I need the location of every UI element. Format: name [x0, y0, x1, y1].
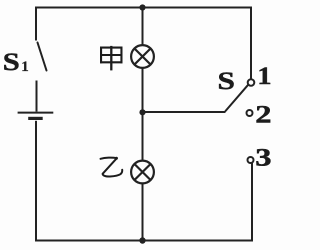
lamp L2 (yi) [131, 161, 154, 184]
svg-text:1: 1 [21, 59, 29, 75]
wire right lower [251, 163, 253, 242]
contact 3 [248, 157, 254, 163]
svg-text:3: 3 [255, 144, 271, 172]
wire feed to switch S [143, 111, 226, 113]
wire left middle [36, 81, 38, 112]
lamp L1 (jia) [131, 45, 154, 68]
wire left upper [35, 7, 37, 41]
battery B1 long plate [18, 112, 54, 114]
battery B1 short plate [28, 117, 43, 120]
node bottom junction [139, 237, 145, 243]
node top junction [139, 4, 145, 10]
wire center middle [142, 68, 144, 162]
wire center lower [142, 184, 144, 242]
svg-text:S: S [3, 48, 20, 76]
wire bottom [35, 240, 253, 242]
contact 2 [247, 110, 253, 116]
svg-text:1: 1 [257, 62, 271, 90]
switch S1 blade [38, 43, 47, 71]
contact 1 [248, 79, 255, 86]
wire right upper [250, 7, 252, 79]
wire left lower [35, 121, 37, 242]
wire center upper [142, 7, 144, 46]
node middle junction [139, 109, 145, 115]
label yi (SVG strokes) [101, 157, 123, 177]
svg-text:2: 2 [255, 101, 271, 129]
switch S blade [226, 85, 248, 111]
label jia (SVG strokes) [100, 46, 123, 71]
svg-text:S: S [218, 68, 235, 95]
wire top [35, 7, 252, 9]
